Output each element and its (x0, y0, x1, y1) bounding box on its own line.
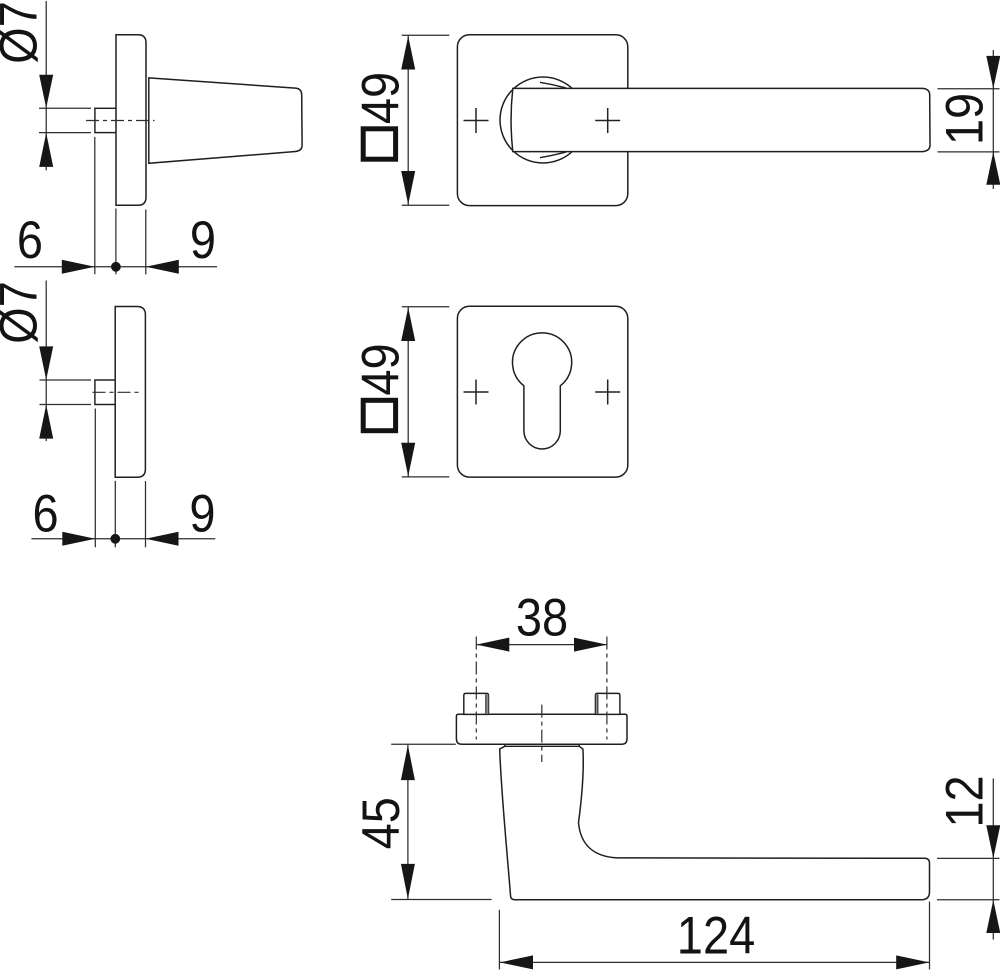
dot junction (111, 262, 121, 272)
arrow O7 top (39, 75, 53, 108)
arrow 49 top (401, 308, 415, 342)
extension line top (402, 34, 450, 36)
extension line bottom (402, 204, 450, 206)
extension line 19 bottom (938, 151, 1000, 153)
arrow O7 bottom (39, 405, 53, 439)
screw boss right (595, 693, 620, 714)
arrow 49 bottom (401, 171, 415, 205)
dimension line 12 (992, 779, 994, 940)
extension line top (402, 306, 450, 308)
cross right (595, 391, 620, 393)
extension line right (9) (145, 210, 147, 275)
arrow 12 top (986, 825, 1000, 858)
dimension line 124 (499, 961, 929, 963)
arrow 45 top (401, 745, 415, 780)
dimension line 6 / 9 (31, 538, 215, 540)
arrow 49 bottom (401, 443, 415, 477)
arrow 6 (62, 260, 95, 274)
rosette plate (456, 714, 627, 744)
extension line 12 top (937, 857, 1000, 859)
neck and grip (500, 744, 930, 900)
extension line left (6) (94, 137, 96, 274)
arrow 124 left (500, 955, 533, 969)
dimension line 49 (407, 307, 409, 477)
svg-text:38: 38 (516, 588, 568, 647)
svg-text:45: 45 (351, 797, 410, 849)
extension line left (6) (94, 409, 96, 548)
svg-text:6: 6 (33, 484, 59, 543)
arrow 9 (146, 260, 179, 274)
extension line right (9) (145, 481, 147, 547)
svg-text:124: 124 (677, 906, 755, 965)
arrow 12 bottom (986, 900, 1000, 933)
rosette body (115, 307, 145, 478)
dimension line vertical O7 (45, 1, 47, 170)
arrow 49 top (401, 36, 415, 70)
square symbol (363, 400, 395, 430)
cross right (595, 120, 620, 122)
square rosette (457, 35, 627, 206)
dimension line vertical O7 (45, 281, 47, 442)
neck transition bottom (540, 152, 566, 158)
extension line 12 bottom (937, 899, 1000, 901)
arrow 45 bottom (401, 864, 415, 899)
extension line 45 bottom (391, 899, 491, 901)
dimension line 45 (407, 745, 409, 899)
arrow 9 (146, 532, 179, 546)
svg-text:49: 49 (351, 72, 410, 124)
neck collar line (505, 745, 580, 747)
svg-text:Ø7: Ø7 (0, 281, 48, 344)
extension line 45 top (391, 743, 456, 745)
extension line 124 left (498, 910, 500, 970)
euro profile keyhole (512, 333, 571, 449)
svg-text:19: 19 (935, 93, 994, 145)
dim line O7 upper (40, 379, 92, 381)
svg-text:12: 12 (935, 775, 994, 827)
svg-text:Ø7: Ø7 (0, 1, 48, 64)
cross left (464, 391, 489, 393)
neck transition top (540, 82, 566, 88)
centerline (86, 120, 155, 122)
boss centerline right (606, 637, 608, 740)
extension line 19 top (938, 88, 1000, 90)
rosette body (116, 35, 146, 205)
boss centerline left (475, 637, 477, 740)
arrow O7 top (39, 346, 53, 379)
extension line 124 right (929, 902, 931, 970)
dim line O7 lower (39, 132, 91, 134)
spindle stub (95, 380, 116, 405)
extension line middle (114, 481, 116, 548)
extension line middle (115, 209, 117, 275)
dimension line 38 (476, 644, 607, 646)
handle neck cone (149, 78, 302, 163)
spindle stub (95, 108, 116, 132)
arrow 19 top (986, 56, 1000, 89)
extension line bottom (402, 476, 450, 478)
dim line O7 lower (40, 404, 92, 406)
main centerline (541, 705, 543, 762)
neck circle (500, 77, 586, 163)
arrow O7 bottom (39, 133, 53, 167)
arrow 19 bottom (986, 152, 1000, 185)
dimension line 19 (992, 50, 994, 189)
square symbol (363, 129, 395, 159)
svg-text:49: 49 (351, 343, 410, 395)
arrow 38 right (574, 638, 607, 652)
svg-text:9: 9 (189, 484, 215, 543)
arrow 124 right (896, 955, 929, 969)
screw boss left (464, 693, 489, 714)
arrow 38 left (476, 638, 509, 652)
lever grip bar (511, 88, 930, 151)
svg-text:6: 6 (17, 210, 43, 269)
arrow 6 (62, 532, 95, 546)
dimension line 6 / 9 (14, 266, 217, 268)
square escutcheon (457, 306, 627, 477)
svg-text:9: 9 (190, 210, 216, 269)
cross left (464, 120, 489, 122)
dim line O7 upper (39, 107, 91, 109)
dot junction (110, 534, 120, 544)
dimension line 49 (407, 35, 409, 205)
centerline (93, 391, 141, 393)
